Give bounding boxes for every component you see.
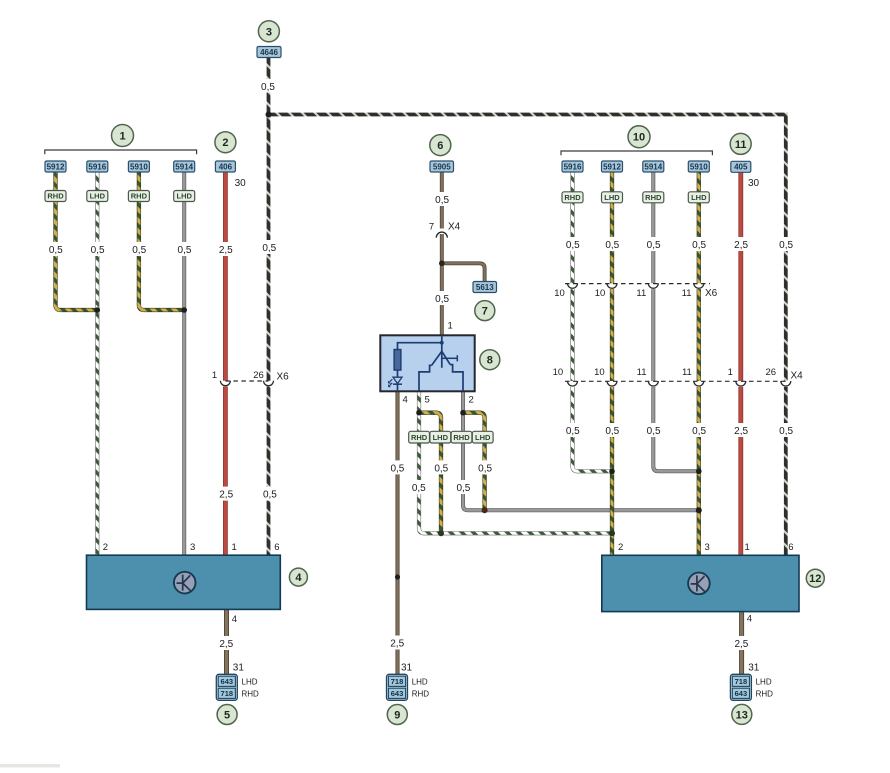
wire number box 5914 right [643, 161, 664, 172]
svg-text:6: 6 [788, 542, 793, 553]
svg-text:X4: X4 [448, 222, 461, 233]
svg-text:5912: 5912 [47, 162, 65, 171]
wire 5916 left (white/green) down to pin 2 of motor 4 [95, 172, 99, 556]
connector 7/X4 on 5905 wire [435, 229, 449, 238]
wire number box 5912 left [45, 161, 66, 172]
wire number box 5914 left [174, 161, 195, 172]
svg-text:1: 1 [232, 542, 237, 553]
scan artifact bottom left [0, 764, 60, 768]
svg-text:0,5: 0,5 [434, 463, 448, 474]
ground block 718/643 right [730, 674, 751, 700]
component callout circle 12 [806, 569, 824, 587]
svg-text:3: 3 [266, 26, 272, 38]
svg-text:5914: 5914 [175, 162, 193, 171]
svg-text:4: 4 [295, 572, 302, 584]
junction 5912/5916 [95, 307, 101, 313]
svg-text:0,5: 0,5 [779, 426, 793, 437]
svg-text:RHD: RHD [645, 193, 662, 202]
value label 0,5 on 4646 wire top [259, 79, 278, 93]
svg-text:0,5: 0,5 [262, 243, 276, 254]
junction 5914/5910 right [696, 469, 702, 475]
svg-text:30: 30 [235, 178, 247, 189]
svg-text:RHD: RHD [412, 690, 430, 699]
svg-text:0,5: 0,5 [605, 240, 619, 251]
value label 2,5 lower on 406 wire [216, 487, 235, 501]
svg-text:5916: 5916 [564, 162, 582, 171]
svg-text:2,5: 2,5 [734, 639, 748, 650]
value label 2,5 above right ground [732, 636, 751, 650]
value label 0,5 lower on 4646 wire [260, 487, 279, 501]
svg-text:0,5: 0,5 [435, 195, 449, 206]
junction yellow to white/green run [438, 530, 444, 536]
junction gray run to 5910 [696, 507, 702, 513]
wire motor 4 pin 4 (brown 2.5) to ground block [224, 609, 229, 674]
svg-text:10: 10 [553, 367, 564, 378]
relay wire diode to pin 4 [397, 384, 399, 391]
wire 4646 top horizontal run and right-side vertical down to pin 6 of motor 12 [269, 115, 786, 556]
svg-text:0,5: 0,5 [692, 240, 706, 251]
relay internal bus to pin 2 [450, 365, 463, 392]
motor M4 symbol [174, 572, 196, 594]
svg-text:718: 718 [391, 677, 404, 686]
svg-text:X4: X4 [791, 370, 804, 381]
svg-text:11: 11 [637, 367, 647, 378]
wire number box 5916 right [562, 161, 583, 172]
svg-text:0,5: 0,5 [566, 426, 580, 437]
value labels 0,5 right group below X4 [563, 423, 582, 437]
svg-text:5613: 5613 [476, 283, 494, 292]
component callout circle 7 [475, 301, 495, 321]
svg-text:718: 718 [735, 677, 748, 686]
svg-text:0,5: 0,5 [647, 240, 661, 251]
variant box RHD under 5910 [128, 191, 149, 202]
svg-text:LHD: LHD [756, 677, 772, 686]
relay resistor [394, 350, 401, 371]
svg-text:LHD: LHD [475, 433, 491, 442]
value label 0,5 on 4646 wire mid [260, 240, 279, 254]
svg-text:5912: 5912 [603, 162, 621, 171]
svg-text:LHD: LHD [412, 677, 428, 686]
svg-text:0,5: 0,5 [647, 426, 661, 437]
value label 2,5 on 406 wire [216, 242, 235, 256]
wire 406 (red 2.5) down to pin 1 of motor 4 [223, 172, 228, 555]
connector X4 right dashed row [565, 381, 792, 387]
svg-text:5910: 5910 [130, 162, 148, 171]
svg-text:11: 11 [636, 288, 646, 299]
svg-text:RHD: RHD [756, 690, 774, 699]
svg-text:0,5: 0,5 [456, 483, 470, 494]
svg-text:10: 10 [554, 288, 565, 299]
value label 2,5 above middle ground [388, 636, 407, 650]
svg-text:5910: 5910 [690, 162, 708, 171]
svg-text:8: 8 [487, 355, 493, 367]
wire 5914 right (gray) merging into 5910 wire [653, 172, 699, 472]
svg-text:RHD: RHD [131, 192, 148, 201]
svg-text:1: 1 [212, 370, 217, 381]
variant box LHD under 5910 right [688, 192, 709, 203]
svg-text:12: 12 [809, 573, 821, 585]
svg-text:LHD: LHD [433, 433, 449, 442]
svg-text:26: 26 [766, 367, 777, 378]
svg-text:643: 643 [221, 677, 234, 686]
svg-text:2,5: 2,5 [219, 490, 233, 501]
svg-text:2: 2 [618, 542, 623, 553]
group 1 bracket [45, 150, 197, 154]
svg-text:RHD: RHD [47, 192, 64, 201]
value labels 0,5 on relay output wires [388, 460, 407, 474]
svg-text:9: 9 [394, 710, 400, 722]
motor M12 symbol [688, 573, 710, 595]
variant box LHD under 5914 [174, 191, 195, 202]
svg-text:5916: 5916 [88, 162, 106, 171]
relay LED diode [388, 377, 402, 387]
component callout circle 10 [628, 126, 650, 148]
component callout circle 1 [112, 125, 134, 147]
wire motor 12 pin 4 (brown 2.5) to ground block [739, 612, 744, 675]
value labels 0,5 right group [563, 237, 582, 251]
variant box LHD under 5916 [87, 191, 108, 202]
svg-text:0,5: 0,5 [605, 426, 619, 437]
wire 5910 left (yellow/green) [139, 172, 184, 311]
svg-text:1: 1 [745, 542, 750, 553]
relay internal wire from pin 1 [441, 335, 443, 351]
svg-text:6: 6 [437, 140, 443, 152]
wire 5912 left (yellow/green) [56, 172, 98, 311]
svg-text:5905: 5905 [433, 162, 451, 171]
component callout circle 2 [215, 132, 236, 153]
svg-text:4: 4 [747, 614, 752, 625]
svg-text:0,5: 0,5 [692, 426, 706, 437]
relay U8 body [380, 335, 474, 391]
svg-text:2: 2 [469, 395, 474, 406]
variant box RHD under 5914 right [643, 192, 664, 203]
wire 4646 vertical (black/white) from box 4646 down to pin 6 of motor 4 [267, 58, 271, 556]
svg-text:2,5: 2,5 [390, 639, 404, 650]
svg-text:11: 11 [682, 288, 692, 299]
wire number box 5912 right [602, 161, 623, 172]
svg-text:RHD: RHD [564, 193, 581, 202]
svg-text:0,5: 0,5 [566, 240, 580, 251]
svg-text:3: 3 [705, 542, 710, 553]
value label 0,5 on right black wire [776, 237, 795, 251]
wire 5912 right (yellow/green) down to pin 2 of motor 12 [610, 172, 614, 556]
junction below pin 2 [460, 410, 466, 416]
relay internal bus to pin 5 [419, 365, 432, 391]
svg-text:1: 1 [448, 321, 453, 332]
junction wg run to 5912 [609, 530, 615, 536]
junction at 4646 tee [266, 112, 272, 118]
relay switching element [432, 351, 458, 368]
wire relay pin 2 RHD (gray) down then right to 5910 node [463, 391, 699, 510]
wire number box 5905 [430, 161, 454, 172]
svg-text:LHD: LHD [242, 677, 258, 686]
junction on 5905 wire [439, 261, 445, 267]
ground block 643/718 left [216, 674, 237, 700]
svg-text:2,5: 2,5 [219, 639, 233, 650]
component callout circle 13 [732, 704, 752, 724]
svg-text:7: 7 [482, 306, 488, 318]
svg-text:30: 30 [748, 178, 760, 189]
svg-text:X6: X6 [277, 372, 290, 383]
svg-text:11: 11 [735, 139, 747, 151]
wire 5905 (brown) from box to relay pin 1 [440, 172, 444, 335]
component callout circle 5 [217, 705, 237, 725]
wire number box 4646 [257, 47, 281, 58]
relay internal top branch [398, 343, 442, 350]
svg-text:1: 1 [119, 131, 125, 143]
svg-text:LHD: LHD [604, 193, 620, 202]
svg-text:4: 4 [232, 614, 237, 625]
junction 5916/5912 right [609, 469, 615, 475]
svg-text:13: 13 [736, 709, 748, 721]
svg-text:LHD: LHD [691, 193, 707, 202]
svg-text:406: 406 [219, 162, 233, 171]
svg-text:RHD: RHD [453, 433, 470, 442]
svg-text:10: 10 [633, 132, 645, 144]
svg-text:718: 718 [221, 689, 234, 698]
svg-text:31: 31 [401, 663, 413, 674]
wire relay pin 2 LHD (yellow/green) branch [463, 413, 485, 511]
svg-text:0,5: 0,5 [178, 245, 192, 256]
svg-text:6: 6 [274, 542, 279, 553]
wire 5914 left (gray) down to pin 3 of motor 4 [182, 172, 186, 556]
value label 0,5 on 5905 wire lower [432, 291, 451, 305]
svg-text:0,5: 0,5 [132, 245, 146, 256]
svg-text:2: 2 [222, 137, 228, 149]
svg-text:643: 643 [391, 689, 404, 698]
svg-text:0,5: 0,5 [779, 240, 793, 251]
variant box LHD under 5912 right [602, 192, 623, 203]
svg-text:31: 31 [233, 663, 245, 674]
component callout circle 9 [387, 705, 407, 725]
svg-text:2,5: 2,5 [219, 245, 233, 256]
svg-text:0,5: 0,5 [435, 294, 449, 305]
svg-text:LHD: LHD [176, 192, 192, 201]
junction yellow to gray run [482, 507, 488, 513]
svg-text:0,5: 0,5 [91, 245, 105, 256]
value labels 0,5 left group [46, 242, 65, 256]
value label 2,5 above left ground [217, 636, 236, 650]
ground block 718/643 middle [387, 674, 408, 700]
splice on pin 4 wire [395, 574, 400, 579]
connector X6 left dashed link [218, 381, 278, 387]
svg-text:0,5: 0,5 [261, 82, 275, 93]
relay wire resistor to diode [397, 370, 399, 377]
svg-text:7: 7 [429, 222, 434, 233]
svg-text:RHD: RHD [242, 690, 260, 699]
variant box RHD under 5912 [45, 191, 66, 202]
wire number box 5910 right [688, 161, 709, 172]
wire branch to 5613 (brown) [442, 263, 485, 281]
wire 5916 right (white/green) merging into 5912 wire [573, 172, 613, 472]
svg-text:11: 11 [682, 367, 692, 378]
value label 0,5 on 5905 wire [432, 192, 451, 206]
wire number box 5613 [473, 282, 497, 293]
wire relay pin 4 (brown) down to ground block [395, 391, 399, 674]
junction 5910/5914 [181, 307, 187, 313]
value label 2,5 on 405 wire [731, 237, 750, 251]
motor M12 body [602, 555, 799, 611]
svg-text:0,5: 0,5 [49, 245, 63, 256]
connector X6 right dashed row [565, 283, 710, 289]
wire relay pin 5 RHD (white/green) down then right to 5912 node [419, 391, 612, 533]
variant box RHD under 5916 right [562, 192, 583, 203]
wire number box 5916 left [87, 161, 108, 172]
svg-text:LHD: LHD [90, 192, 106, 201]
svg-text:0,5: 0,5 [263, 490, 277, 501]
svg-text:643: 643 [735, 689, 748, 698]
svg-text:10: 10 [594, 367, 605, 378]
component callout circle 4 [289, 568, 307, 586]
wire number box 406 [215, 161, 235, 172]
group 10 bracket [561, 151, 712, 155]
svg-text:0,5: 0,5 [390, 463, 404, 474]
junction below pin 5 [416, 410, 422, 416]
svg-text:5: 5 [425, 395, 430, 406]
svg-text:0,5: 0,5 [412, 483, 426, 494]
svg-text:2: 2 [103, 542, 108, 553]
svg-text:1: 1 [728, 367, 733, 378]
svg-text:3: 3 [190, 542, 195, 553]
svg-text:5914: 5914 [644, 162, 662, 171]
svg-text:405: 405 [734, 163, 748, 172]
wire 405 (red 2.5) down to pin 1 of motor 12 [738, 172, 743, 555]
svg-text:2,5: 2,5 [734, 240, 748, 251]
svg-text:4646: 4646 [260, 48, 278, 57]
wire number box 405 [731, 161, 751, 172]
wire relay pin 5 LHD (yellow/green) branch [419, 413, 441, 534]
svg-text:2,5: 2,5 [734, 426, 748, 437]
wire number box 5910 left [128, 161, 149, 172]
component callout circle 11 [730, 133, 751, 154]
motor M4 body [87, 555, 281, 609]
variant row boxes RHD LHD RHD LHD under relay [409, 431, 493, 443]
component callout circle 3 [258, 21, 279, 42]
svg-text:10: 10 [595, 288, 606, 299]
svg-text:RHD: RHD [411, 433, 428, 442]
svg-text:26: 26 [253, 370, 264, 381]
svg-text:0,5: 0,5 [478, 463, 492, 474]
svg-text:4: 4 [403, 395, 408, 406]
wire 5910 right (yellow/green) down to pin 3 of motor 12 [697, 172, 701, 556]
svg-text:X6: X6 [705, 288, 718, 299]
component callout circle 6 [430, 135, 451, 156]
svg-text:31: 31 [748, 663, 760, 674]
svg-text:5: 5 [224, 710, 230, 722]
component callout circle 8 [480, 350, 500, 370]
